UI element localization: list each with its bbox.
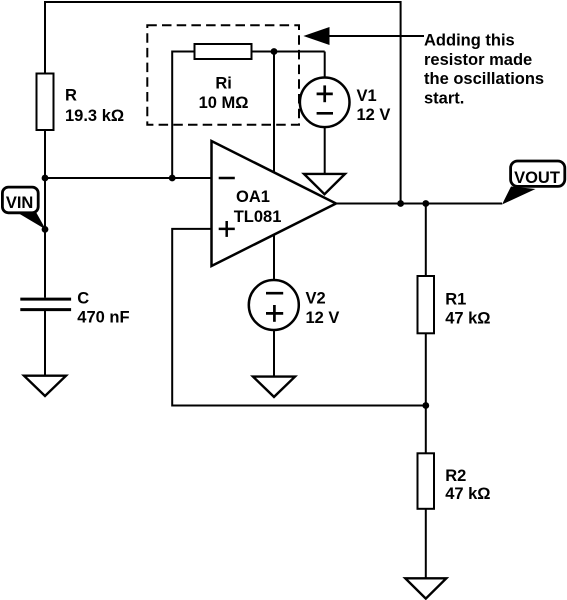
svg-text:470 nF: 470 nF: [77, 309, 129, 327]
svg-text:V2: V2: [306, 289, 326, 307]
svg-text:start.: start.: [424, 89, 464, 107]
svg-text:12 V: 12 V: [306, 309, 340, 327]
svg-text:the oscillations: the oscillations: [424, 70, 544, 88]
svg-text:12 V: 12 V: [357, 106, 391, 124]
svg-text:Ri: Ri: [215, 74, 232, 92]
svg-text:OA1: OA1: [236, 188, 270, 206]
svg-text:10 MΩ: 10 MΩ: [199, 94, 249, 112]
svg-text:R2: R2: [445, 467, 466, 485]
svg-text:V1: V1: [357, 87, 377, 105]
svg-text:47 kΩ: 47 kΩ: [445, 309, 490, 327]
svg-text:Adding this: Adding this: [424, 32, 515, 50]
svg-text:C: C: [77, 289, 89, 307]
svg-text:R: R: [65, 86, 77, 104]
svg-text:R1: R1: [445, 290, 466, 308]
svg-text:VIN: VIN: [6, 194, 34, 212]
svg-text:VOUT: VOUT: [514, 169, 560, 187]
svg-text:19.3 kΩ: 19.3 kΩ: [65, 107, 124, 125]
svg-text:TL081: TL081: [234, 208, 282, 226]
svg-text:resistor made: resistor made: [424, 51, 532, 69]
svg-text:47 kΩ: 47 kΩ: [445, 485, 490, 503]
